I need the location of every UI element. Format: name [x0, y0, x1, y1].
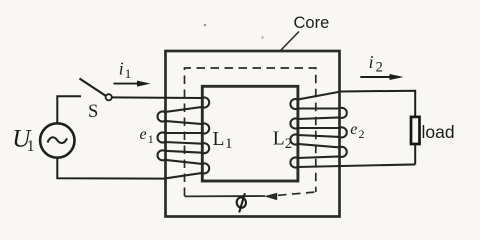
svg-text:2: 2 — [376, 60, 383, 76]
secondary winding L2 — [290, 92, 415, 168]
svg-text:L: L — [213, 129, 225, 150]
svg-text:i: i — [119, 59, 124, 79]
svg-text:1: 1 — [125, 66, 132, 81]
primary winding L1 — [158, 98, 210, 179]
switch contact circle — [106, 94, 112, 100]
svg-text:1: 1 — [225, 136, 233, 152]
flux arrowhead pointing left — [264, 193, 277, 200]
svg-text:e: e — [140, 126, 147, 143]
svg-text:1: 1 — [148, 132, 154, 146]
flux path dashed rectangle (left, top, right sides) — [185, 68, 316, 196]
wire: secondary top to load — [341, 91, 415, 117]
i1 arrow — [114, 83, 141, 85]
scan speck — [204, 24, 207, 27]
AC source U1 circle — [40, 123, 74, 157]
svg-text:e: e — [350, 121, 357, 138]
scan speck — [261, 36, 263, 38]
svg-text:L: L — [273, 129, 285, 150]
svg-text:2: 2 — [359, 127, 365, 141]
svg-text:load: load — [422, 122, 455, 142]
wire: load bottom — [414, 144, 416, 164]
svg-text:S: S — [88, 102, 98, 122]
core inner window rectangle — [202, 86, 298, 181]
AC source tilde — [48, 137, 68, 143]
svg-text:i: i — [369, 52, 374, 72]
switch S lever — [80, 79, 107, 97]
Core leader line — [281, 32, 299, 51]
wire: source bottom, bottom return wire to L1 — [57, 158, 164, 179]
flux path bottom solid segment with arrow phi — [185, 195, 266, 197]
svg-text:Core: Core — [294, 14, 330, 32]
i2 arrow — [360, 76, 391, 78]
flux path bottom dashed segment — [278, 192, 316, 195]
wire: switch to primary winding — [112, 96, 202, 99]
svg-text:1: 1 — [27, 138, 35, 155]
phi label — [236, 193, 247, 212]
wire: source top to switch stub — [57, 96, 81, 123]
core outer rectangle — [166, 51, 340, 217]
load resistor rectangle — [411, 117, 420, 144]
